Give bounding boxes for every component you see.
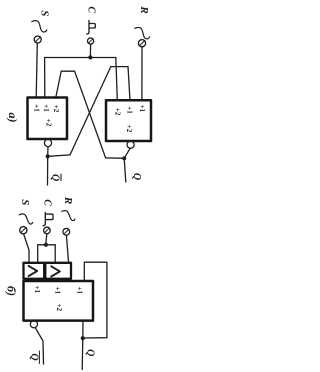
svg-text:+1: +1	[33, 285, 41, 293]
svg-text:Q: Q	[49, 174, 60, 181]
gate DD1 box (left gate of diagram a)	[28, 98, 68, 140]
svg-text:S: S	[19, 199, 31, 205]
node junction Q	[122, 156, 126, 160]
wire diagonal cross 1 (right gate output to left gate input)	[75, 71, 106, 158]
wire right gate output down	[124, 148, 130, 158]
svg-text:+1: +1	[33, 104, 41, 112]
node junction C line	[88, 55, 92, 59]
node junction C split	[44, 243, 48, 247]
comparator box 1 (left small box with > symbol)	[24, 263, 45, 279]
wire C horizontal distribution line	[45, 57, 116, 59]
wire C split bar	[38, 244, 56, 246]
svg-text:S: S	[38, 10, 50, 16]
label Qbar (diagram a)	[49, 174, 61, 181]
svg-text:+1: +1	[76, 286, 84, 294]
wire left gate output down	[47, 147, 49, 156]
svg-text:R: R	[138, 5, 150, 13]
gate DD2 box (right gate of diagram a)	[106, 100, 151, 141]
wire C down to junction	[89, 44, 91, 56]
svg-text:+1: +1	[126, 106, 134, 114]
svg-text:+2: +2	[52, 105, 60, 113]
svg-text:Q: Q	[131, 173, 142, 180]
wire feedback loop Q to main gate input	[83, 262, 107, 338]
wire feedback (left) from crossing to left gate	[61, 70, 74, 72]
inversion bubble left gate output	[44, 139, 51, 146]
svg-text:б): б)	[4, 286, 18, 296]
gate DD3 main box (diagram b)	[24, 281, 94, 321]
node R (input terminal R, diagram a)	[135, 5, 150, 46]
comparator box 2 (right small box with > symbol)	[45, 263, 71, 279]
node junction Qbar	[46, 154, 50, 158]
wire C branch into right gate	[116, 58, 118, 101]
wire Q output from main gate	[82, 321, 84, 338]
node C (input terminal C, diagram a)	[85, 6, 96, 44]
inversion bubble main gate (Qbar output)	[30, 321, 37, 328]
inversion bubble right gate output	[127, 141, 134, 148]
svg-text:+2: +2	[114, 108, 122, 116]
wire C branch right	[54, 245, 56, 263]
label Qbar (diagram b)	[28, 351, 39, 364]
svg-text:C: C	[85, 6, 96, 13]
svg-text:+2: +2	[125, 125, 133, 133]
wire Qbar output	[47, 156, 49, 185]
wire R to upper comparator box	[66, 235, 68, 263]
svg-text:Q: Q	[28, 353, 39, 360]
node S (input terminal S, diagram b)	[19, 199, 33, 234]
wire Q output down	[81, 338, 84, 369]
wire diagonal cross 2 (left gate output to right gate input)	[70, 67, 111, 155]
svg-text:+2: +2	[55, 303, 63, 311]
svg-text:C: C	[42, 199, 53, 206]
wire C branch into left gate	[44, 58, 46, 98]
svg-text:Q: Q	[84, 349, 95, 356]
node C (input terminal C, diagram b)	[42, 199, 53, 233]
wire feedback (right) from crossing to right gate	[111, 66, 128, 68]
node R (input terminal R, diagram b)	[62, 196, 75, 235]
svg-text:R: R	[62, 196, 74, 204]
svg-text:+1: +1	[54, 286, 62, 294]
wire Q output	[124, 158, 126, 182]
wire stub box2 to main gate	[55, 279, 57, 281]
wire C down to split	[45, 234, 48, 244]
svg-text:а): а)	[6, 113, 20, 123]
svg-text:+1: +1	[42, 104, 50, 112]
wire S to lower comparator box	[24, 234, 29, 263]
node S (input terminal S, diagram a)	[32, 10, 51, 43]
wire stub box1 to main gate	[33, 279, 35, 281]
wire R to upper-right gate	[141, 47, 143, 100]
wire S to lower-left gate	[36, 43, 37, 97]
node junction Q (diagram b)	[81, 336, 85, 340]
wire C branch left	[37, 245, 39, 263]
wire Qbar output (diagram b)	[35, 328, 43, 364]
svg-text:+2: +2	[45, 119, 53, 127]
svg-text:+1: +1	[138, 104, 146, 112]
